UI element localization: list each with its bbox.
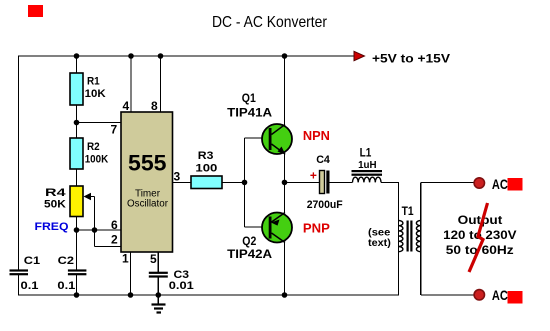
wire C4-L1 [330,181,353,183]
svg-text:555: 555 [128,151,167,176]
transformer T1 [399,221,421,252]
wire base column [244,138,246,227]
wiper arrow of R4 [84,193,95,247]
svg-text:T1: T1 [402,204,414,218]
label Q1 TIP41A [227,91,272,120]
wire Q1 emitter to node [284,153,286,182]
pin 4 label [123,99,130,113]
svg-text:7: 7 [111,123,118,137]
capacitor C2 [68,269,87,275]
resistor R1 [70,73,83,105]
junction nodes pin6 [74,227,98,233]
ghost red square right lower [508,291,523,304]
wire R1 top stub [76,56,78,74]
pin 2 label [111,233,118,247]
wire Q1 base [245,137,264,139]
wire R3-base node [222,181,245,183]
pin 6 label [111,218,118,232]
wire node to C4 [285,181,321,183]
svg-text:R3: R3 [198,150,214,162]
label AC lower [492,288,508,303]
wire pin4 [130,56,132,112]
label PNP [303,220,330,235]
label R4 50K [44,187,67,211]
svg-text:50K: 50K [44,199,66,211]
label C3 0.01 [169,269,194,292]
svg-text:(see: (see [368,228,391,239]
capacitor C1 [10,269,29,275]
pin 5 label [150,252,157,266]
IC U1 555 timer [121,112,173,252]
svg-text:8: 8 [151,99,158,113]
wire pin3 [173,181,192,183]
svg-text:5: 5 [150,252,157,266]
svg-text:TIP42A: TIP42A [227,247,272,261]
svg-text:AC: AC [492,288,508,303]
wire pin5 [157,252,159,272]
svg-text:+: + [310,169,317,183]
wire pin7 [77,122,122,124]
label NPN [303,128,330,143]
wire T1 primary vertical [398,182,400,295]
label +5V to +15V [372,52,450,66]
wire left rail upper [18,55,20,269]
label AC upper [492,177,508,192]
lightning bolt [469,203,488,272]
label T1 [402,204,414,218]
svg-text:4: 4 [123,99,130,113]
svg-text:AC: AC [492,177,508,192]
svg-text:+5V to +15V: +5V to +15V [372,52,450,66]
wire pin2 [95,246,122,248]
svg-text:C2: C2 [58,255,74,267]
svg-text:0.01: 0.01 [169,280,194,292]
junction bottom rail dots [74,292,288,298]
ghost red square right upper [508,178,523,191]
svg-text:TIP41A: TIP41A [227,106,272,120]
label Output 120 to 230V 50 to 60Hz [443,213,516,257]
label FREQ [35,221,69,233]
transistor Q2 [262,213,292,243]
svg-text:R1: R1 [87,76,100,88]
wire L1-T1 [381,181,399,183]
wire Q2 collector to rail [284,242,286,296]
svg-text:2700uF: 2700uF [307,199,343,211]
svg-text:1: 1 [122,252,129,266]
svg-text:3: 3 [174,169,181,183]
wire C2-rail [76,275,78,295]
junction node base [242,180,248,186]
junction node emitters [282,180,288,186]
label + polarity [310,169,317,183]
supply arrow [354,51,365,60]
transistor Q1 [262,124,292,155]
svg-text:R4: R4 [45,187,67,199]
potentiometer R4 [70,186,83,217]
svg-text:C1: C1 [24,255,40,267]
svg-text:100K: 100K [85,154,109,166]
wire pin6 [77,229,122,231]
wire R1-R2 [76,105,78,139]
label C1 0.1 [21,255,41,292]
wire R2-R4 [76,169,78,187]
wire C3-rail [157,277,159,295]
label Q2 TIP42A [227,234,272,261]
wire top +V rail [19,55,355,57]
wire pin1 [130,252,132,295]
capacitor C4 [320,171,330,194]
svg-text:Oscillator: Oscillator [127,199,169,210]
svg-text:R2: R2 [87,141,100,153]
label C4 [316,154,331,166]
label C2 0.1 [57,255,75,292]
svg-text:L1: L1 [360,146,372,160]
svg-text:0.1: 0.1 [57,280,75,292]
wire secondary top [421,181,474,183]
label (see text) [368,228,391,250]
ghost red square top-left [28,5,43,17]
wire Q2 base [245,226,263,228]
label R3 100 [195,150,217,174]
junction top rail dots [74,53,288,59]
svg-text:FREQ: FREQ [35,221,69,233]
ground [152,295,166,313]
pin 1 label [122,252,129,266]
wire pin8 [160,56,162,112]
label R1 10K [85,76,106,100]
svg-text:C3: C3 [174,269,190,281]
svg-text:text): text) [368,238,391,249]
svg-text:2: 2 [111,233,118,247]
svg-text:C4: C4 [316,154,331,166]
pin 8 label [151,99,158,113]
svg-text:1uH: 1uH [358,160,377,171]
svg-text:NPN: NPN [303,128,330,143]
capacitor C3 [149,272,168,278]
terminal AC lower [474,290,484,300]
svg-text:PNP: PNP [303,220,330,235]
svg-text:100: 100 [195,162,217,174]
pin 3 label [174,169,181,183]
inductor L1 [352,170,383,182]
junction node pin7 [74,120,80,126]
label R2 100K [85,141,109,166]
wire collector column from +V [284,56,286,126]
wire T1 secondary vertical [420,182,422,295]
wire left rail lower stub [18,275,20,295]
label 2700uF [307,199,343,211]
resistor R2 [70,138,83,169]
pin 7 label [111,123,118,137]
label L1 1uH [358,146,377,171]
wire secondary bottom [421,294,474,296]
svg-text:Q1: Q1 [242,91,256,105]
terminal AC upper [474,178,484,188]
title [212,14,328,31]
wire bottom ground rail [18,294,399,296]
wire R4-C2 [76,217,78,270]
svg-text:6: 6 [111,218,118,232]
wire Q2 emitter from node [284,182,286,213]
svg-text:0.1: 0.1 [21,280,39,292]
resistor R3 [191,176,222,189]
svg-text:10K: 10K [85,88,106,100]
svg-text:DC - AC Konverter: DC - AC Konverter [212,14,328,31]
